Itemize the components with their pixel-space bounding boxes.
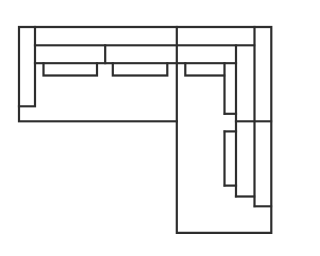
corner seat cushion xyxy=(185,63,224,75)
section divider xyxy=(176,27,178,121)
sofa outer L outline xyxy=(19,27,271,233)
seat cushion 1 xyxy=(44,63,98,75)
inner band upper vertical xyxy=(223,63,225,114)
seat cushion 2 xyxy=(113,63,168,75)
left armrest xyxy=(19,27,35,106)
front edge right segment xyxy=(236,120,271,122)
step 3 bottom xyxy=(255,205,272,207)
notch top xyxy=(225,113,237,115)
step 1 bottom xyxy=(225,185,237,187)
notch bottom xyxy=(225,130,237,132)
back band bottom line xyxy=(35,44,255,46)
back cushion divider xyxy=(104,45,106,63)
step 2 bottom xyxy=(236,195,255,197)
inner band lower vertical xyxy=(223,131,225,185)
outer band vertical xyxy=(253,27,255,206)
back cushion line xyxy=(35,62,236,64)
middle band vertical xyxy=(235,45,237,196)
